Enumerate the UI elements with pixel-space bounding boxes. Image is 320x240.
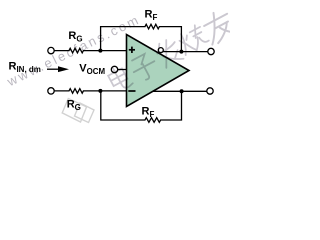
svg-text:www.elecfans.com: www.elecfans.com (4, 12, 143, 90)
